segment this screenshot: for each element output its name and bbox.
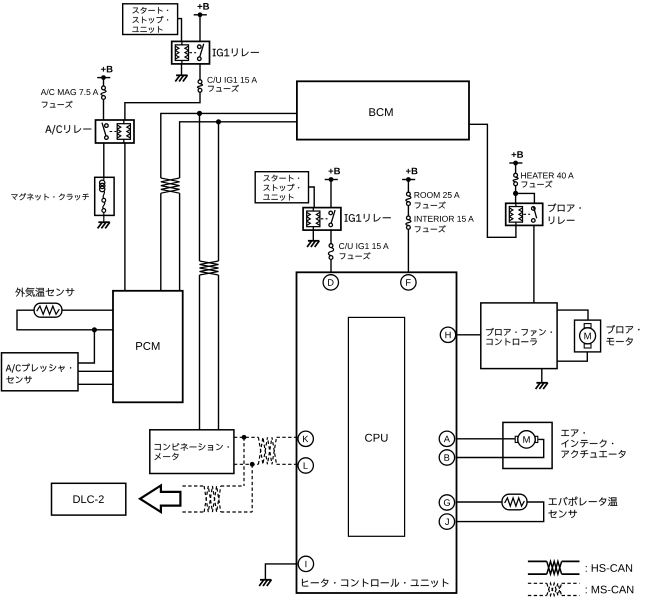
MS-CAN dashed to DLC lower [182,511,252,513]
label C/U IG1 15A fuse 2 [339,243,389,259]
connector H [440,327,455,342]
wire +B3 to IG1 relay 2 [330,180,332,208]
battery +B feed 3 [325,168,340,182]
wire I to ground [265,564,296,580]
label heater control unit [302,579,448,588]
air intake actuator motor [515,431,538,448]
wire B to actuator motor [457,439,544,457]
battery +B feed 4 [402,168,417,182]
label A/C relay [45,125,91,134]
heater control unit box [297,272,457,593]
blower motor M [580,324,596,348]
legend HS-CAN symbol [528,561,580,574]
MS-CAN dashed drop 2 [251,464,253,512]
label blower relay [548,203,581,224]
wire blower relay switch to controller [533,225,535,303]
wire fuse to A/C relay switch [103,100,105,120]
DLC-2 box [52,483,126,515]
label BCM [369,108,392,116]
connector K [298,431,313,446]
label PCM [136,342,159,350]
ground under IG1 relay 2 [307,241,319,247]
wire G to evaporator sensor [457,501,503,503]
label ROOM fuse [415,192,460,209]
MS-CAN twisted pair DLC [204,486,221,512]
label IG1 relay 1 [213,48,259,56]
fuse INTERIOR 15A [406,216,411,229]
combination meter box [150,430,234,474]
wire pressure sensor to PCM 1 [78,370,113,372]
ground under magnet clutch [98,222,110,228]
label HEATER fuse [521,172,574,187]
wire IG1-1 switch to fuse [199,64,201,80]
CPU box [348,317,404,536]
air intake actuator box [503,422,552,468]
fuse ROOM 25A [406,192,411,205]
battery +B feed 2 [97,66,112,80]
label A/C MAG fuse [41,89,99,108]
connector J [439,514,454,529]
wire H to controller [457,334,481,336]
wire +B5 to HEATER fuse [515,163,517,173]
wire controller to motor bottom [557,352,587,361]
relay A/C [96,120,135,143]
legend HS-CAN text [586,564,632,572]
MS-CAN dashed L line [234,463,298,465]
MS-CAN twisted pair K-L [258,437,276,464]
HS-CAN branch to meter [200,113,219,261]
wire junction to pressure sensor [78,330,94,363]
connector A [439,431,454,446]
fuse C/U IG1 15A no.1 [197,80,202,92]
label ambient temp sensor [15,288,74,297]
HS-CAN pair into PCM [161,193,180,291]
MS-CAN dashed to DLC upper [182,485,244,487]
wire fuse2 to connector D [330,260,332,273]
ground under heater unit [259,580,271,586]
relay IG1 no.1 [172,41,210,64]
node junction pressure sensor [92,327,97,332]
start-stop unit box 2 [255,172,308,203]
wire A/C relay switch to magnet clutch [103,143,105,177]
twisted pair to combination meter [200,261,219,275]
wire start-stop2 to IG1 relay 2 coil [309,187,315,208]
BCM box [297,81,469,139]
wire sensor loop [17,310,113,330]
twisted pair to PCM [161,178,180,193]
node junction lower CAN [216,119,221,124]
blower motor box [575,320,601,352]
magnet clutch [95,177,114,222]
wire A to actuator motor [457,438,516,440]
node junction K line [242,435,247,440]
fuse C/U IG1 15A no.2 [328,244,333,260]
arrow to DLC-2 [140,486,180,513]
label magnet clutch [11,193,89,200]
wire pressure sensor to PCM 2 [78,383,113,385]
legend MS-CAN symbol [528,583,580,595]
wire controller to motor top [557,310,588,320]
label air intake actuator [561,430,625,458]
label CPU [365,434,387,442]
wire HEATER fuse to junction [515,186,517,203]
wire +B1 to IG1 relay switch [199,15,201,42]
connector L [298,458,313,473]
connector B [439,450,454,465]
wire IG1-2 coil to ground [312,229,314,241]
connector G [439,495,454,510]
label IG1 relay 2 [345,214,391,222]
wire sensor to PCM [62,309,113,311]
label evaporator sensor [548,497,617,518]
start-stop unit box 1 [123,4,178,35]
relay IG1 no.2 [303,208,341,231]
wire fuse1 to A/C relay coil [125,92,200,120]
HS-CAN wire upper [161,113,297,178]
blower fan controller box [481,303,557,369]
connector D [323,275,338,290]
wire IG1-1 coil to ground [181,64,183,75]
wire evaporator loop to J [457,502,544,522]
wire controller to ground [541,369,543,383]
fuse A/C MAG 7.5A [101,86,106,99]
node junction blower relay [513,191,518,196]
wire ROOM to INTERIOR fuse [407,206,409,216]
ground under IG1 relay 1 [175,75,187,81]
MS-CAN dashed K line [234,436,298,438]
HS-CAN pair into meter [200,275,219,430]
wire INTERIOR fuse to connector F [407,230,409,273]
wire A/C relay coil to PCM [124,143,126,291]
wire +B2 to fuse [103,78,105,86]
connector I [298,556,313,571]
wire IG1-2 switch to fuse [330,229,332,243]
label blower motor [606,325,639,345]
legend MS-CAN text [586,586,634,594]
label C/U IG1 15A fuse 1 [207,77,257,92]
relay blower [506,203,543,225]
evaporator temp sensor [502,494,527,510]
wire blower relay coil to BCM [469,124,516,237]
battery +B feed 5 [509,151,523,165]
ambient temp sensor [34,303,62,317]
fuse HEATER 40A [513,173,518,185]
ground under controller [536,383,548,389]
wire start-stop1 to IG1 relay coil [178,19,182,42]
wire +B4 to ROOM fuse [407,180,409,193]
wire junction to blower relay switch [516,193,535,203]
node junction upper CAN [197,111,202,116]
battery +B feed 1 [194,3,209,17]
HS-CAN wire lower [180,122,297,178]
connector F [401,275,416,290]
node junction L line [250,462,255,467]
label INTERIOR fuse [415,216,474,233]
MS-CAN dashed drop 1 [243,437,245,486]
A/C pressure sensor box [2,353,79,391]
PCM box [113,291,183,403]
